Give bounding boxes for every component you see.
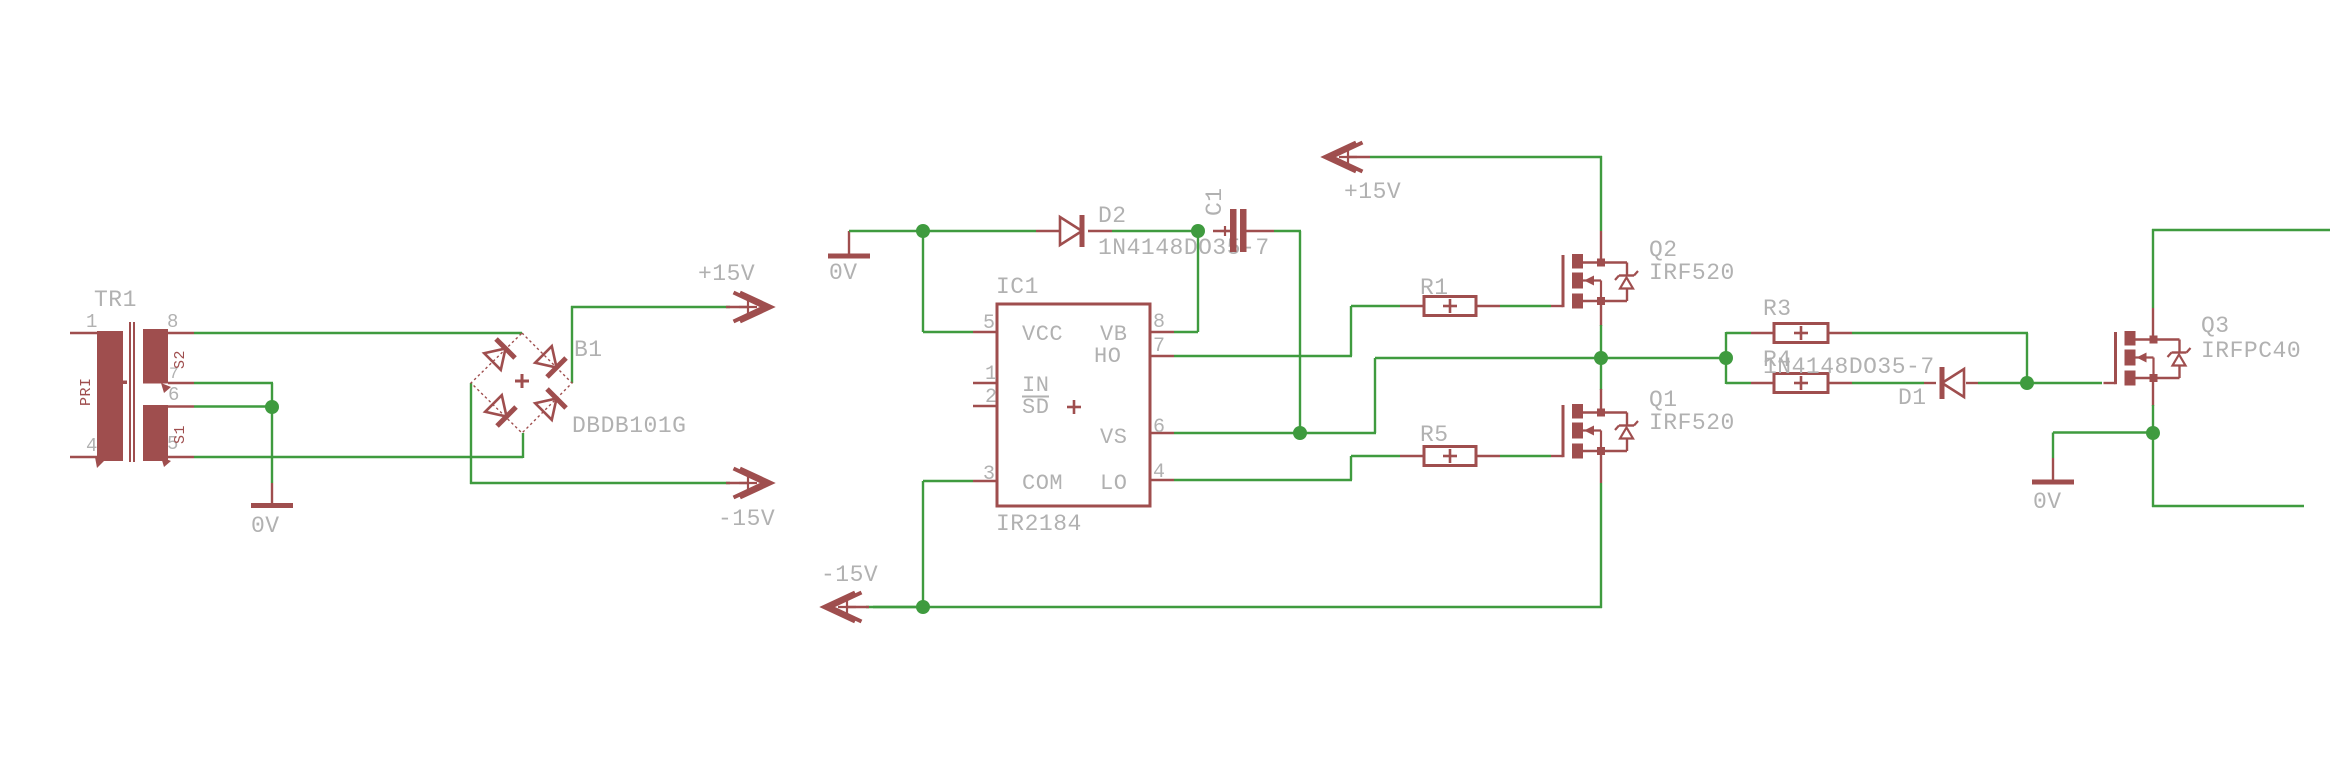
svg-text:TR1: TR1: [94, 287, 137, 313]
wire R1 to Q2 gate: [1500, 305, 1551, 307]
IC1 pin 4 stub: [1150, 479, 1174, 481]
wire junction down to VB pin: [1174, 231, 1198, 332]
svg-text:0V: 0V: [251, 513, 280, 539]
svg-text:S1: S1: [172, 425, 189, 444]
IC1 value IR2184: [996, 511, 1082, 537]
IC1 pin number 6: [1153, 416, 1166, 439]
svg-text:COM: COM: [1022, 471, 1063, 496]
IC1 pin name VB: [1100, 322, 1127, 347]
transformer TR1 primary tick: [119, 381, 127, 385]
diode D2 value: [1098, 235, 1270, 261]
IC1 pin name VS: [1100, 425, 1127, 450]
IC1 pin name LO: [1100, 471, 1127, 496]
svg-text:8: 8: [167, 311, 179, 333]
supply -15V arrow (IC): [824, 593, 869, 622]
wire Q3 drain up: [2152, 229, 2330, 308]
node centre tap junction: [265, 400, 279, 414]
supply +15V arrow (IC): [1325, 143, 1370, 172]
wire D1 to gate node: [1978, 382, 2027, 384]
wire C1 to VS drop: [1274, 231, 1301, 433]
wire pin7 right: [194, 383, 273, 407]
transformer TR1 secondary S2 arrow: [161, 383, 171, 393]
capacitor C1 plus cross: [1220, 226, 1230, 236]
svg-text:5: 5: [983, 312, 996, 335]
IC1 pin 2 stub: [973, 405, 997, 407]
wire Q3 drain pin: [2152, 308, 2154, 341]
transformer TR1 secondary winding S1: [143, 405, 168, 461]
wire R3 to D1 node: [1852, 333, 2028, 383]
transistor Q1 name: [1649, 387, 1678, 413]
IC1 origin cross: [1067, 400, 1081, 414]
wire Q3 source down: [2152, 405, 2154, 433]
resistor R4 leads: [1751, 382, 1852, 384]
svg-text:0V: 0V: [829, 260, 858, 286]
supply +15V arrow (bridge): [726, 293, 771, 322]
svg-text:R1: R1: [1420, 275, 1449, 301]
IC1 pin name IN: [1022, 373, 1049, 398]
svg-text:IR2184: IR2184: [996, 511, 1082, 537]
svg-text:0V: 0V: [2033, 489, 2062, 515]
transformer TR1 pin 1 number: [86, 311, 98, 333]
svg-text:IC1: IC1: [996, 274, 1039, 300]
transformer TR1 label: [94, 287, 137, 313]
transformer TR1 pin 6 lead: [168, 405, 194, 407]
node -15V junction: [916, 600, 930, 614]
bridge B1 diode top-right: [534, 345, 566, 377]
IC1 pin number 2: [985, 386, 998, 409]
transformer TR1 pin 7 number: [169, 365, 179, 383]
svg-text:VS: VS: [1100, 425, 1127, 450]
svg-text:6: 6: [1153, 416, 1166, 439]
bridge B1 diode bottom-left: [484, 394, 516, 426]
wire VS to switch node: [1300, 358, 1601, 433]
wire D2 to C1 junction: [1112, 230, 1198, 232]
node Q3 gate junction: [2020, 376, 2034, 390]
bridge B1 value: [572, 413, 686, 439]
transistor Q2 name: [1649, 237, 1678, 263]
IC1 pin number 7: [1153, 335, 1166, 358]
supply -15V arrow (bridge): [726, 469, 771, 498]
wire COM pin left: [923, 481, 973, 607]
wire R4 to D1: [1852, 382, 1924, 384]
svg-text:LO: LO: [1100, 471, 1127, 496]
svg-text:VCC: VCC: [1022, 322, 1063, 347]
wire +15V to Q2 drain: [1370, 156, 1602, 231]
svg-text:-15V: -15V: [718, 506, 775, 532]
transformer TR1 core: [130, 322, 134, 462]
svg-text:HO: HO: [1094, 344, 1121, 369]
IC1 pin name SD (active low): [1022, 395, 1049, 420]
wire Q3 source pin: [2152, 374, 2154, 406]
svg-text:3: 3: [983, 463, 996, 486]
IC1 pin 6 stub: [1150, 432, 1174, 434]
diode D1 value: [1763, 354, 1935, 380]
wire Q2 drain pin: [1600, 231, 1602, 264]
transistor Q1: [1551, 404, 1638, 459]
node VS/C1 junction: [1293, 426, 1307, 440]
wire Q1 drain pin: [1600, 358, 1602, 414]
resistor R5: [1424, 447, 1476, 466]
svg-text:+15V: +15V: [1344, 179, 1401, 205]
capacitor C1 left lead: [1213, 230, 1230, 232]
transistor Q2 value: [1649, 260, 1735, 286]
svg-text:1N4148DO35-7: 1N4148DO35-7: [1763, 354, 1935, 380]
supply -15V label (IC): [821, 562, 878, 588]
IC1 pin number 3: [983, 463, 996, 486]
node 0V junction: [916, 224, 930, 238]
capacitor C1 label: [1202, 187, 1228, 216]
svg-text:-15V: -15V: [821, 562, 878, 588]
wire pin5 to bridge bottom: [194, 433, 523, 458]
diode D1: [1942, 367, 1964, 399]
ground 0V transformer label: [251, 513, 280, 539]
transformer TR1 secondary winding S2: [143, 329, 168, 384]
node R3R4 junction: [1719, 351, 1733, 365]
transformer TR1 primary arrow: [95, 457, 104, 468]
svg-text:C1: C1: [1202, 187, 1228, 216]
ground 0V transformer: [251, 483, 293, 506]
diode D2: [1060, 215, 1082, 247]
diode D1 leads: [1924, 382, 1978, 384]
IC1 pin number 5: [983, 312, 996, 335]
wire Q1 source pin: [1600, 451, 1602, 483]
node VB/C1 junction: [1191, 224, 1205, 238]
transformer TR1 secondary S1 label: [172, 425, 189, 444]
op-amp/driver IC1 box: [997, 304, 1150, 506]
svg-text:1: 1: [86, 311, 98, 333]
svg-text:+15V: +15V: [698, 261, 755, 287]
node switch node junction: [1594, 351, 1608, 365]
svg-text:B1: B1: [574, 337, 603, 363]
svg-text:R3: R3: [1763, 296, 1792, 322]
IC1 pin name VCC: [1022, 322, 1063, 347]
svg-text:7: 7: [1153, 335, 1166, 358]
ground 0V at IC: [828, 231, 870, 256]
transformer TR1 pin 8 number: [167, 311, 179, 333]
wire 0V junction down to VCC: [923, 231, 973, 332]
diode D2 leads: [1036, 230, 1112, 232]
svg-text:IRFPC40: IRFPC40: [2201, 338, 2301, 364]
bridge rectifier B1 outline: [471, 333, 572, 433]
transistor Q2: [1551, 254, 1638, 309]
supply -15V label (bridge): [718, 506, 775, 532]
ground 0V at IC label: [829, 260, 858, 286]
transformer TR1 pin 8 lead: [168, 332, 194, 334]
transformer TR1 pin 4 lead: [70, 456, 97, 458]
wire -15V to Q1 source: [873, 483, 1602, 608]
transformer TR1 secondary S1 arrow: [161, 457, 171, 467]
IC1 pin 7 stub: [1150, 355, 1174, 357]
transformer TR1 secondary S2 label: [172, 350, 189, 369]
capacitor C1 right lead: [1247, 230, 1275, 232]
resistor R4 name: [1763, 347, 1792, 373]
wire LO to R5: [1174, 456, 1400, 480]
supply +15V label (IC): [1344, 179, 1401, 205]
wire Q3 source out: [2152, 433, 2304, 507]
transformer TR1 pin 5 number: [167, 433, 179, 455]
diode D1 name: [1898, 385, 1927, 411]
IC1 pin name HO: [1094, 344, 1121, 369]
resistor R5 name: [1420, 422, 1449, 448]
svg-text:2: 2: [985, 386, 998, 409]
resistor R3: [1774, 324, 1828, 343]
IC1 pin 3 stub: [973, 480, 997, 482]
bridge B1 origin cross: [515, 374, 529, 388]
transformer TR1 pin 7 lead: [168, 382, 194, 384]
IC1 pin number 1: [985, 363, 998, 386]
svg-text:R5: R5: [1420, 422, 1449, 448]
bridge B1 diode bottom-right: [534, 389, 566, 421]
transformer TR1 primary label PRI: [78, 377, 95, 406]
transformer TR1 pin 1 lead: [70, 332, 97, 334]
IC1 pin number 8: [1153, 311, 1166, 334]
ground 0V right: [2032, 458, 2074, 482]
transistor Q3 name: [2201, 313, 2230, 339]
transformer TR1 pin 4 number: [86, 435, 98, 457]
node Q3 source junction: [2146, 426, 2160, 440]
resistor R1 leads: [1400, 305, 1500, 307]
IC1 pin 1 stub: [973, 382, 997, 384]
resistor R3 name: [1763, 296, 1792, 322]
capacitor C1 plates: [1230, 209, 1247, 252]
svg-text:S2: S2: [172, 350, 189, 369]
transistor Q3: [2104, 331, 2191, 386]
IC1 pin 8 stub: [1150, 331, 1174, 333]
IC1 pin name COM: [1022, 471, 1063, 496]
IC1 pin 5 stub: [973, 331, 997, 333]
wire 0V to D2: [849, 230, 1036, 232]
resistor R4: [1774, 374, 1828, 393]
transistor Q3 value: [2201, 338, 2301, 364]
supply +15V label (bridge): [698, 261, 755, 287]
svg-text:8: 8: [1153, 311, 1166, 334]
bridge B1 diode top-left: [483, 339, 515, 371]
transformer TR1 pin 6 number: [168, 384, 180, 406]
svg-text:PRI: PRI: [78, 377, 95, 406]
wire switch node to R3R4: [1601, 357, 1726, 359]
wire gate node to Q3: [2027, 382, 2102, 384]
wire pin8 to bridge top: [194, 332, 522, 334]
ground 0V right label: [2033, 489, 2062, 515]
svg-text:D1: D1: [1898, 385, 1927, 411]
wire pin6 to junction: [194, 405, 272, 407]
transformer TR1 pin 5 lead: [168, 456, 194, 458]
bridge B1 name: [574, 337, 603, 363]
wire centre tap down to ground: [271, 407, 273, 483]
svg-text:IRF520: IRF520: [1649, 410, 1735, 436]
resistor R5 leads: [1400, 455, 1500, 457]
svg-text:Q3: Q3: [2201, 313, 2230, 339]
resistor R3 leads: [1751, 332, 1852, 334]
wire source junction to 0V: [2053, 433, 2153, 459]
wire bridge left to -15V: [470, 383, 730, 484]
wire HO to R1: [1174, 306, 1400, 356]
resistor R1: [1424, 297, 1476, 316]
svg-text:IRF520: IRF520: [1649, 260, 1735, 286]
svg-text:1: 1: [985, 363, 998, 386]
svg-text:SD: SD: [1022, 395, 1049, 420]
resistor R1 name: [1420, 275, 1449, 301]
transistor Q1 value: [1649, 410, 1735, 436]
IC1 pin number 4: [1153, 461, 1166, 484]
svg-text:D2: D2: [1098, 203, 1127, 229]
wire junction up to R3: [1726, 332, 1751, 358]
wire R5 to Q1 gate: [1500, 455, 1551, 457]
svg-text:4: 4: [86, 435, 98, 457]
svg-text:DBDB101G: DBDB101G: [572, 413, 686, 439]
wire junction down to R4: [1726, 358, 1751, 384]
svg-text:4: 4: [1153, 461, 1166, 484]
wire VS row: [1174, 432, 1300, 434]
diode D2 name: [1098, 203, 1127, 229]
wire bridge right to +15V: [571, 306, 730, 383]
transformer TR1 primary winding: [97, 331, 123, 461]
IC1 name: [996, 274, 1039, 300]
wire Q2 source pin: [1600, 301, 1602, 358]
wire -15V row: [866, 606, 923, 608]
